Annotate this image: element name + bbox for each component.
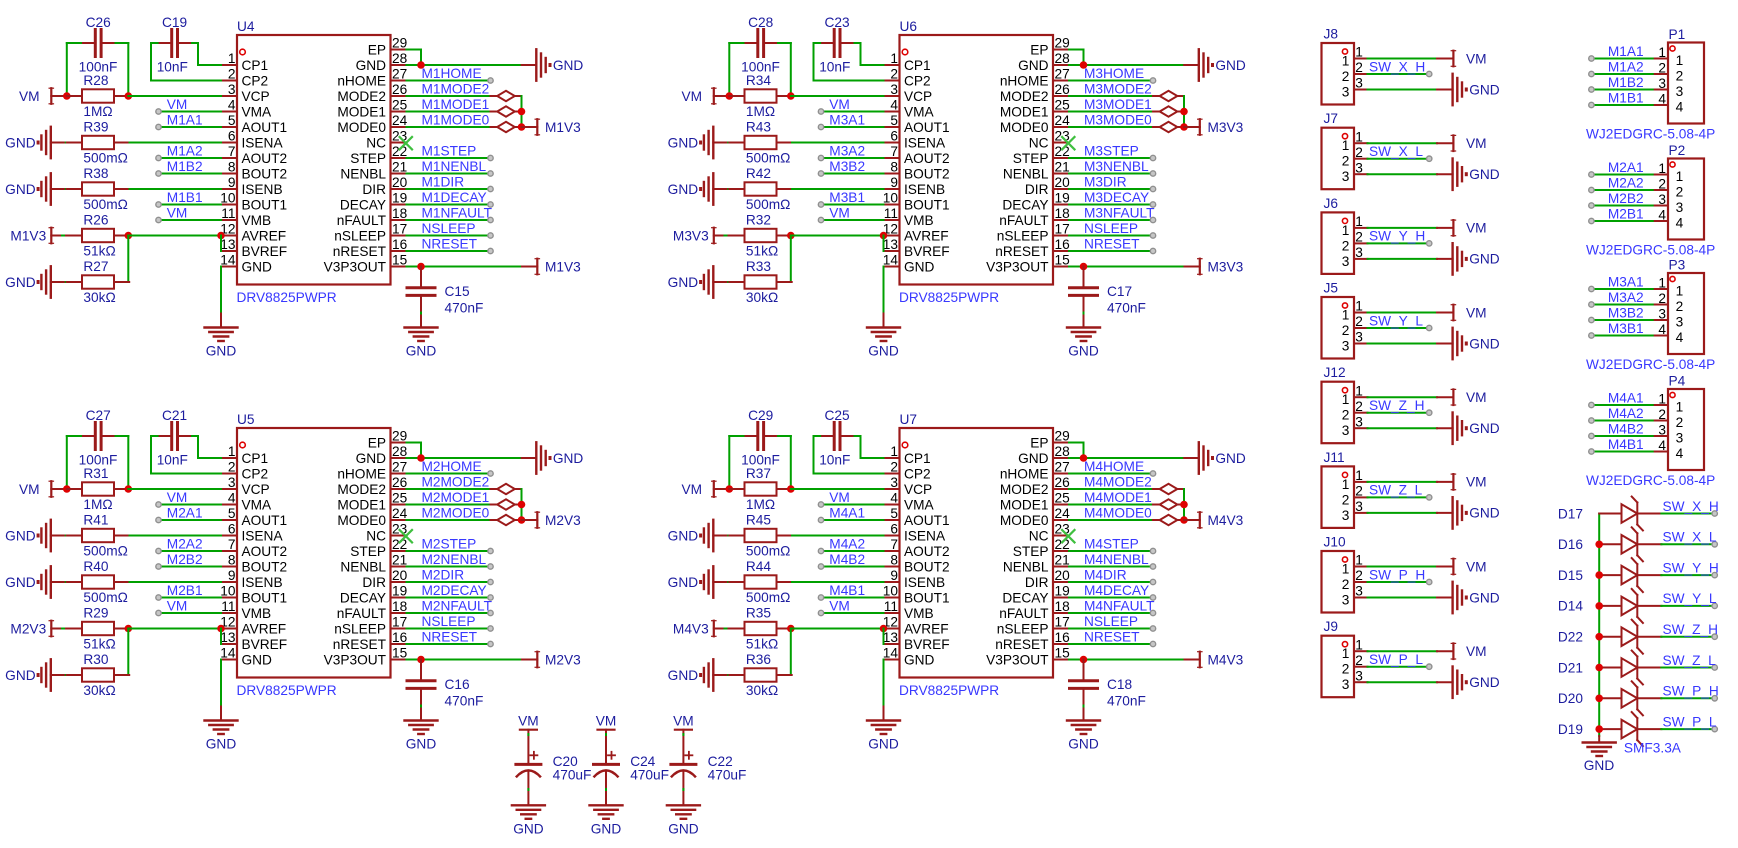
wire [1368, 173, 1438, 175]
svg-text:21: 21 [392, 553, 407, 568]
svg-text:M2V3: M2V3 [545, 652, 581, 667]
wire [161, 504, 221, 506]
wire [407, 64, 522, 66]
svg-text:18: 18 [392, 206, 408, 221]
net label SW_P_L [1369, 652, 1423, 667]
svg-text:1: 1 [1355, 383, 1363, 398]
svg-text:28: 28 [1055, 444, 1071, 459]
svg-text:10: 10 [883, 584, 899, 599]
net label M2A1 [167, 505, 203, 520]
svg-text:VM: VM [596, 714, 617, 729]
power port M4V3 [673, 621, 729, 637]
svg-text:3: 3 [1676, 431, 1684, 446]
U5 pin 22 (STEP) [350, 537, 407, 559]
wire end marker [1150, 595, 1155, 600]
wire [66, 436, 68, 489]
svg-text:R32: R32 [746, 213, 771, 228]
svg-text:VMA: VMA [242, 104, 273, 119]
svg-text:R28: R28 [83, 73, 108, 88]
svg-text:nHOME: nHOME [337, 73, 386, 88]
U6 pin 26 (MODE2) [1000, 82, 1070, 104]
diode D14 (TVS zener) [1558, 589, 1662, 623]
svg-text:nSLEEP: nSLEEP [997, 228, 1049, 243]
svg-text:M3B1: M3B1 [829, 190, 865, 205]
svg-text:2: 2 [1342, 577, 1350, 592]
wire [192, 42, 198, 44]
svg-text:16: 16 [392, 630, 408, 645]
wire end marker [1712, 542, 1717, 547]
svg-text:AOUT2: AOUT2 [904, 544, 950, 559]
wire end marker [1150, 626, 1155, 631]
U4 pin 29 (EP) [368, 36, 408, 58]
svg-text:3: 3 [228, 82, 236, 97]
wire [407, 457, 522, 459]
svg-text:15: 15 [392, 253, 408, 268]
svg-text:M1MODE1: M1MODE1 [422, 97, 490, 112]
capacitor C17 470nF [1070, 267, 1146, 327]
svg-text:M2NENBL: M2NENBL [422, 552, 487, 567]
wire [1368, 327, 1427, 329]
wire [1069, 173, 1153, 175]
junction [726, 92, 734, 100]
P3 pin 2 [1653, 291, 1684, 314]
svg-text:M4A1: M4A1 [1608, 390, 1644, 405]
svg-text:2: 2 [1342, 662, 1350, 677]
net label M4A1 [1608, 390, 1644, 405]
svg-text:470nF: 470nF [1107, 300, 1146, 315]
svg-text:nFAULT: nFAULT [337, 606, 387, 621]
wire end marker [156, 217, 161, 222]
svg-text:D21: D21 [1558, 660, 1583, 675]
svg-text:GND: GND [904, 652, 935, 667]
svg-text:VM: VM [167, 490, 188, 505]
ground GND [867, 707, 900, 752]
svg-text:GND: GND [668, 668, 699, 683]
svg-text:1: 1 [1342, 392, 1350, 407]
svg-text:8: 8 [228, 160, 236, 175]
wire [1594, 451, 1653, 453]
connector P1 WJ2EDGRC-5.08-4P [1586, 27, 1715, 142]
ground GND [1437, 667, 1500, 698]
U7 pin 7 (AOUT2) [884, 537, 950, 559]
U6 pin 10 (BOUT1) [883, 191, 950, 213]
U5 pin 10 (BOUT1) [220, 584, 287, 606]
svg-text:1: 1 [1658, 45, 1666, 60]
svg-text:5: 5 [228, 506, 236, 521]
svg-text:4: 4 [1658, 438, 1666, 453]
junction [1595, 541, 1603, 549]
U5 pin 27 (nHOME) [337, 460, 407, 482]
svg-text:M4MODE2: M4MODE2 [1084, 474, 1152, 489]
svg-text:V3P3OUT: V3P3OUT [986, 259, 1049, 274]
svg-text:1: 1 [228, 51, 236, 66]
wire [1368, 496, 1427, 498]
svg-text:4: 4 [1676, 100, 1684, 115]
wire [130, 581, 222, 583]
net label M1NFAULT [422, 205, 493, 220]
wire [1368, 227, 1438, 229]
svg-text:R36: R36 [746, 652, 771, 667]
svg-text:STEP: STEP [1013, 544, 1049, 559]
svg-text:R26: R26 [83, 213, 108, 228]
wire [790, 436, 792, 489]
svg-text:VM: VM [19, 89, 40, 104]
wire [1368, 158, 1427, 160]
svg-text:GND: GND [668, 182, 699, 197]
U4 pin 19 (DECAY) [340, 191, 407, 213]
svg-text:WJ2EDGRC-5.08-4P: WJ2EDGRC-5.08-4P [1586, 473, 1715, 488]
U4 pin 21 (NENBL) [340, 160, 407, 182]
svg-text:GND: GND [668, 575, 699, 590]
junction [726, 485, 734, 493]
svg-text:1: 1 [1342, 138, 1350, 153]
svg-text:15: 15 [392, 646, 408, 661]
wire end marker [1427, 156, 1432, 161]
svg-text:470nF: 470nF [445, 300, 484, 315]
svg-text:CP2: CP2 [242, 466, 269, 481]
value label SMF3.3A [1624, 740, 1682, 755]
svg-text:1: 1 [1676, 169, 1684, 184]
svg-text:2: 2 [228, 67, 236, 82]
wire [192, 435, 198, 437]
connector J6 [1322, 196, 1355, 274]
svg-text:STEP: STEP [1013, 151, 1049, 166]
connector J9 [1322, 619, 1355, 697]
svg-text:M4MODE0: M4MODE0 [1084, 505, 1152, 520]
svg-text:D20: D20 [1558, 691, 1583, 706]
svg-text:AVREF: AVREF [904, 621, 949, 636]
U7 pin 15 (V3P3OUT) [986, 646, 1070, 668]
J12 pin 3 [1342, 414, 1368, 438]
svg-text:M3MODE1: M3MODE1 [1084, 97, 1152, 112]
svg-text:25: 25 [392, 98, 408, 113]
net label M1NENBL [422, 159, 487, 174]
ground GND [405, 721, 438, 752]
svg-text:GND: GND [1018, 58, 1049, 73]
svg-text:2: 2 [1342, 323, 1350, 338]
U5 pin 16 (nRESET) [333, 630, 408, 652]
svg-text:C28: C28 [748, 15, 773, 30]
svg-text:M3A1: M3A1 [829, 112, 865, 127]
wire end marker [818, 124, 823, 129]
net label M2DIR [422, 567, 465, 582]
svg-text:20: 20 [392, 568, 408, 583]
svg-text:VM: VM [1466, 475, 1487, 490]
wire end marker [818, 171, 823, 176]
ground GND [1184, 49, 1246, 80]
svg-text:R42: R42 [746, 166, 771, 181]
wire [407, 157, 491, 159]
svg-text:nFAULT: nFAULT [999, 606, 1049, 621]
J9 pin 2 [1342, 653, 1368, 677]
U4 pin 1 (CP1) [221, 51, 268, 73]
ground GND [668, 266, 745, 297]
svg-text:M4STEP: M4STEP [1084, 536, 1139, 551]
net label SW_X_L [1663, 530, 1717, 545]
J7 pin 2 [1342, 145, 1368, 169]
svg-text:M1B2: M1B2 [1608, 75, 1644, 90]
svg-text:3: 3 [1658, 192, 1666, 207]
wire [790, 236, 792, 283]
wire [1069, 157, 1153, 159]
svg-text:7: 7 [890, 537, 898, 552]
svg-text:C16: C16 [445, 677, 470, 692]
capacitor C22 470uF (polarized) [671, 730, 747, 805]
net label M3DECAY [1084, 190, 1149, 205]
svg-text:MODE0: MODE0 [1000, 513, 1049, 528]
ground GND [1067, 328, 1100, 359]
svg-text:24: 24 [392, 113, 408, 128]
svg-text:M4MODE1: M4MODE1 [1084, 490, 1152, 505]
net label M3MODE1 [1084, 97, 1152, 112]
svg-text:19: 19 [392, 584, 407, 599]
connector J10 [1322, 535, 1355, 613]
svg-text:10: 10 [883, 191, 899, 206]
wire [1594, 58, 1653, 60]
svg-text:4: 4 [1676, 446, 1684, 461]
net label M1B1 [167, 190, 203, 205]
svg-text:M2B1: M2B1 [167, 583, 203, 598]
svg-text:R45: R45 [746, 513, 771, 528]
wire [790, 629, 792, 676]
U7 pin 24 (MODE0) [1000, 506, 1070, 528]
svg-text:GND: GND [5, 182, 36, 197]
svg-text:16: 16 [1055, 630, 1071, 645]
svg-text:R39: R39 [83, 120, 108, 135]
net label SW_P_H [1663, 684, 1719, 699]
svg-text:NENBL: NENBL [340, 559, 386, 574]
svg-text:VMB: VMB [904, 213, 934, 228]
svg-text:C21: C21 [162, 408, 187, 423]
svg-text:27: 27 [392, 460, 407, 475]
wire [792, 142, 884, 144]
wire [1069, 457, 1184, 459]
svg-text:20: 20 [1055, 175, 1071, 190]
svg-text:nRESET: nRESET [995, 244, 1049, 259]
junction [787, 232, 795, 240]
U4 pin 25 (MODE1) [337, 98, 407, 120]
svg-text:10: 10 [220, 191, 236, 206]
net label M3HOME [1084, 66, 1144, 81]
svg-text:NENBL: NENBL [340, 166, 386, 181]
svg-text:EP: EP [368, 435, 386, 450]
svg-text:26: 26 [1055, 82, 1071, 97]
svg-text:2: 2 [1355, 568, 1363, 583]
svg-text:M3STEP: M3STEP [1084, 143, 1139, 158]
svg-text:25: 25 [1055, 491, 1071, 506]
U7 pin 25 (MODE1) [1000, 491, 1070, 513]
net label VM [829, 598, 850, 613]
wire end marker [1589, 433, 1594, 438]
svg-text:MODE0: MODE0 [337, 513, 386, 528]
solder-jumper diamond [1153, 106, 1184, 116]
wire [407, 612, 491, 614]
svg-text:1: 1 [1658, 161, 1666, 176]
svg-text:WJ2EDGRC-5.08-4P: WJ2EDGRC-5.08-4P [1586, 242, 1715, 257]
IC U5 DRV8825PWPR [237, 412, 391, 698]
svg-text:SW_Y_L: SW_Y_L [1369, 313, 1423, 328]
net label M3DIR [1084, 174, 1127, 189]
svg-text:AOUT2: AOUT2 [904, 151, 950, 166]
svg-text:M4A2: M4A2 [829, 536, 865, 551]
svg-text:13: 13 [220, 630, 236, 645]
svg-text:SW_P_L: SW_P_L [1663, 714, 1717, 729]
svg-text:EP: EP [368, 42, 386, 57]
svg-text:GND: GND [242, 259, 273, 274]
U4 pin 5 (AOUT1) [221, 113, 287, 135]
P2 pin 2 [1653, 177, 1684, 200]
ground GND [1437, 74, 1500, 105]
ground GND [668, 659, 745, 690]
wire end marker [488, 610, 493, 615]
J8 pin 1 [1342, 45, 1368, 69]
wire [1069, 64, 1184, 66]
solder-jumper diamond [1153, 499, 1184, 509]
svg-text:SW_Z_L: SW_Z_L [1369, 483, 1423, 498]
svg-text:2: 2 [1342, 492, 1350, 507]
wire [407, 111, 491, 113]
svg-text:J6: J6 [1324, 196, 1339, 211]
svg-text:BOUT2: BOUT2 [242, 166, 288, 181]
wire [777, 281, 791, 283]
U5 pin 9 (ISENB) [221, 568, 283, 590]
U4 pin 8 (BOUT2) [221, 160, 287, 182]
svg-text:M4B1: M4B1 [829, 583, 865, 598]
U5 pin 7 (AOUT2) [221, 537, 287, 559]
svg-text:1: 1 [1342, 646, 1350, 661]
svg-text:3: 3 [228, 475, 236, 490]
svg-text:M3B2: M3B2 [1608, 305, 1644, 320]
svg-text:V3P3OUT: V3P3OUT [324, 652, 387, 667]
wire end marker [488, 626, 493, 631]
solder-jumper diamond [1153, 515, 1184, 525]
U6 pin 23 (NC) [1029, 129, 1070, 151]
svg-text:GND: GND [1469, 336, 1500, 351]
wire end marker [488, 579, 493, 584]
svg-text:2: 2 [1676, 299, 1684, 314]
svg-text:VCP: VCP [242, 89, 270, 104]
net label M1A1 [167, 112, 203, 127]
no-connect X [1061, 136, 1075, 150]
U7 pin 16 (nRESET) [995, 630, 1070, 652]
svg-text:GND: GND [5, 575, 36, 590]
wire [1368, 73, 1427, 75]
U6 pin 25 (MODE1) [1000, 98, 1070, 120]
power port VM [681, 88, 729, 104]
wire end marker [1712, 665, 1717, 670]
wire [407, 443, 422, 459]
net label M4A2 [1608, 406, 1644, 421]
wire [1069, 235, 1153, 237]
U7 pin 18 (nFAULT) [999, 599, 1070, 621]
svg-text:R44: R44 [746, 559, 771, 574]
power port VM [1437, 305, 1487, 321]
svg-text:14: 14 [220, 253, 236, 268]
wire [1594, 89, 1653, 91]
wire [1368, 427, 1438, 429]
net label M2HOME [422, 459, 482, 474]
svg-text:M2A1: M2A1 [1608, 160, 1644, 175]
svg-text:4: 4 [1658, 92, 1666, 107]
J6 pin 1 [1342, 214, 1368, 238]
svg-text:6: 6 [890, 129, 898, 144]
svg-text:GND: GND [868, 737, 899, 752]
U5 pin 11 (VMB) [221, 599, 271, 621]
junction [63, 92, 71, 100]
svg-text:VM: VM [167, 97, 188, 112]
svg-text:U5: U5 [237, 412, 255, 427]
junction [787, 625, 795, 633]
capacitor C25 [819, 408, 853, 468]
junction [417, 656, 425, 664]
wire [1661, 543, 1711, 545]
svg-text:18: 18 [1055, 206, 1071, 221]
svg-text:C18: C18 [1107, 677, 1132, 692]
svg-text:1: 1 [1676, 53, 1684, 68]
junction [518, 501, 526, 509]
svg-text:30kΩ: 30kΩ [746, 683, 778, 698]
junction [63, 485, 71, 493]
svg-text:M1A2: M1A2 [167, 143, 203, 158]
wire end marker [488, 217, 493, 222]
svg-text:2: 2 [890, 67, 898, 82]
P1 pin 2 [1653, 61, 1684, 84]
U7 pin 4 (VMA) [884, 491, 935, 513]
svg-text:DRV8825PWPR: DRV8825PWPR [899, 683, 999, 698]
svg-text:VMB: VMB [904, 606, 934, 621]
svg-text:29: 29 [1055, 36, 1070, 51]
svg-text:2: 2 [1342, 238, 1350, 253]
ground GND [522, 442, 584, 473]
U4 pin 28 (GND) [356, 51, 408, 73]
svg-text:P1: P1 [1669, 27, 1686, 42]
svg-text:AOUT1: AOUT1 [242, 120, 288, 135]
svg-text:21: 21 [1055, 160, 1070, 175]
wire end marker [1427, 71, 1432, 76]
svg-text:C29: C29 [748, 408, 773, 423]
net label SW_X_H [1663, 499, 1719, 514]
J11 pin 1 [1342, 468, 1368, 492]
net label SW_P_L [1663, 714, 1717, 729]
svg-text:M2HOME: M2HOME [422, 459, 482, 474]
svg-text:NC: NC [366, 135, 386, 150]
svg-text:NSLEEP: NSLEEP [1084, 614, 1138, 629]
resistor R39 [67, 120, 129, 166]
svg-text:CP2: CP2 [904, 466, 931, 481]
power port VM [1437, 220, 1487, 236]
resistor R35 [729, 606, 791, 652]
svg-text:2: 2 [1355, 484, 1363, 499]
wire [1368, 512, 1438, 514]
svg-text:GND: GND [1469, 675, 1500, 690]
svg-text:BVREF: BVREF [242, 244, 288, 259]
svg-text:M2STEP: M2STEP [422, 536, 477, 551]
svg-text:51kΩ: 51kΩ [746, 244, 778, 259]
U6 pin 7 (AOUT2) [884, 144, 950, 166]
wire end marker [1427, 495, 1432, 500]
svg-text:SW_Y_L: SW_Y_L [1663, 591, 1717, 606]
U7 pin 22 (STEP) [1013, 537, 1070, 559]
U5 pin 3 (VCP) [221, 475, 270, 497]
wire [407, 659, 523, 661]
wire end marker [156, 610, 161, 615]
IC U4 DRV8825PWPR [237, 19, 391, 305]
junction [1080, 656, 1088, 664]
wire [1069, 443, 1084, 459]
power port M1V3 [10, 228, 66, 244]
wire [161, 566, 221, 568]
wire [778, 42, 791, 44]
